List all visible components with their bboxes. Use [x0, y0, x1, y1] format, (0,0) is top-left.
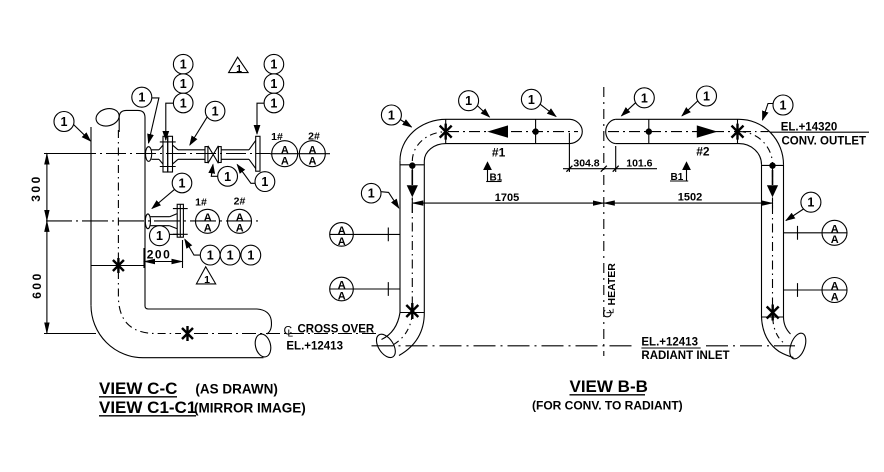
right riser wall outer [783, 165, 785, 317]
pipe #1 bottom wall [446, 143, 570, 145]
svg-text:A: A [281, 155, 289, 167]
svg-text:B1: B1 [671, 172, 684, 183]
weld dot left riser [409, 162, 415, 168]
field weld X on crossover [182, 326, 193, 341]
balloon lower nozzle top [172, 173, 192, 193]
balloon right bend [773, 95, 793, 115]
svg-text:A: A [831, 291, 839, 303]
svg-text:EL.+12413: EL.+12413 [641, 336, 698, 348]
valve bowtie [208, 146, 219, 164]
svg-text:1: 1 [270, 58, 277, 72]
joint line at dot left riser [400, 164, 424, 166]
weld joint pipe #2 right [737, 119, 739, 143]
bottom-left open end ellipse [373, 331, 400, 361]
svg-text:1: 1 [179, 177, 186, 191]
leader pipe #1 a [477, 106, 489, 117]
bottom-right elbow inner arc [784, 317, 791, 334]
lower nozzle flange [177, 204, 183, 237]
balloon row 1 [200, 245, 220, 265]
bottom-right open end ellipse [787, 331, 809, 361]
svg-text:1: 1 [180, 58, 187, 72]
label EL.+12413 radiant [641, 336, 700, 348]
section circle 1# upper [272, 141, 298, 168]
elevation line EL.+14320 [743, 131, 770, 133]
spool 2 walls [221, 150, 249, 160]
section stub B-B left lower [330, 282, 400, 296]
svg-text:300: 300 [29, 174, 43, 202]
lower flange bolt ticks [173, 209, 188, 235]
svg-text:2#: 2# [308, 131, 320, 143]
svg-text:2#: 2# [234, 196, 246, 208]
elbow inner corner [145, 306, 149, 309]
svg-text:1: 1 [61, 115, 68, 129]
dimension 1705 extension [411, 198, 413, 214]
svg-text:1: 1 [528, 93, 535, 107]
svg-text:(MIRROR IMAGE): (MIRROR IMAGE) [194, 401, 306, 416]
leader pipe #2 b [682, 101, 698, 116]
top-left bend outer arc [400, 119, 446, 160]
crossover pipe top wall [149, 308, 258, 310]
leader from riser-left balloon [74, 125, 91, 142]
leader from lower-left balloon [170, 233, 179, 235]
svg-text:A: A [831, 234, 839, 246]
right riser centerline [772, 168, 774, 308]
svg-text:A: A [309, 155, 317, 167]
section circle B-B right upper [822, 220, 847, 246]
left riser centerline [411, 167, 413, 308]
svg-text:1#: 1# [271, 131, 283, 143]
svg-text:EL.+12413: EL.+12413 [286, 341, 343, 353]
balloon valve 1 [218, 166, 238, 186]
balloon pipe #2 b [697, 86, 717, 106]
balloon row 2 [220, 245, 240, 265]
leader from right stack [257, 103, 264, 134]
top-right bend inner arc [739, 144, 762, 165]
upper nozzle flange pair [163, 136, 168, 172]
svg-text:1: 1 [641, 91, 648, 105]
svg-text:A: A [204, 223, 212, 235]
leader from balloon row [185, 239, 201, 255]
balloon pipe #1 b [521, 89, 541, 109]
balloon pipe #2 a [634, 88, 654, 108]
dimension line 1705 [412, 202, 604, 204]
svg-text:1: 1 [236, 63, 242, 75]
leader pipe #2 a [622, 103, 636, 116]
flow arrow pipe #1 (left) [487, 125, 508, 137]
svg-text:CROSS OVER: CROSS OVER [298, 324, 375, 336]
svg-text:(FOR CONV. TO RADIANT): (FOR CONV. TO RADIANT) [532, 399, 683, 413]
svg-text:RADIANT INLET: RADIANT INLET [641, 350, 729, 362]
weld dot pipe #2 [646, 128, 652, 134]
dimension 200 extension lines [144, 240, 183, 268]
top-left bend inner arc [424, 144, 446, 161]
weld joint bottom right riser [762, 316, 784, 318]
top-left bend centerline arc [412, 132, 446, 161]
svg-text:VIEW B-B: VIEW B-B [570, 377, 648, 396]
title VIEW C1-C1 [99, 398, 196, 417]
pipe #2 bottom wall [616, 143, 739, 145]
svg-text:A: A [236, 223, 244, 235]
B1 marker right [670, 163, 690, 183]
svg-text:#2: #2 [696, 145, 710, 159]
crossover end open ellipse [253, 332, 273, 358]
svg-text:HEATER: HEATER [606, 263, 618, 306]
upper nozzle hub flare 2 [173, 145, 179, 164]
svg-text:1502: 1502 [678, 192, 702, 204]
dimension 1502 extension [772, 198, 774, 209]
balloon right riser [801, 192, 821, 212]
pipe #1 rounded end cap [570, 119, 582, 143]
joint line at dot pipe #1 [535, 119, 537, 143]
flow arrow left riser (down) [407, 185, 418, 197]
balloon 1 at riser top [132, 87, 152, 107]
riser centerline bend to crossover [118, 271, 181, 334]
pipe #2 centerline [608, 131, 736, 133]
dimension line 200 [144, 261, 183, 263]
title VIEW C-C [99, 379, 177, 398]
svg-text:L: L [606, 308, 617, 314]
leader from lower-nozzle balloon [152, 189, 175, 208]
dimension line 600 [46, 221, 48, 334]
svg-text:1: 1 [227, 249, 234, 263]
end flange [256, 136, 260, 171]
weld dot right riser [769, 162, 775, 168]
section circle 1# lower [196, 209, 220, 234]
bottom-right elbow centerline [773, 318, 786, 345]
leader right bend [763, 104, 774, 121]
upper nozzle stub walls [152, 150, 160, 160]
section circle B-B right lower [822, 278, 847, 304]
riser pipe right wall [144, 132, 146, 306]
svg-text:1: 1 [207, 249, 214, 263]
svg-text:1: 1 [156, 229, 163, 243]
svg-text:1: 1 [247, 249, 254, 263]
section stub B-B right lower [784, 283, 848, 297]
bottom-right elbow outer arc [762, 317, 794, 358]
upper section line through circles [270, 153, 330, 155]
weld joint pipe #1 left [445, 119, 447, 143]
bottom-left elbow outer arc [382, 313, 401, 340]
svg-text:1: 1 [368, 187, 375, 201]
balloon 1 at riser left [54, 112, 74, 132]
pipe #1 centerline [448, 131, 578, 133]
weld dot pipe #1 [532, 128, 538, 134]
section stub B-B right upper [784, 226, 848, 240]
dimension extension crossover [44, 333, 96, 335]
balloon mid 1 [205, 101, 225, 121]
joint line at dot pipe #2 [648, 119, 650, 143]
dimension 300/600 extension top [44, 153, 94, 155]
slash tick right [613, 166, 619, 172]
leader pipe #1 b [540, 104, 556, 116]
B1 marker left [484, 163, 503, 184]
balloon stack left 2 [173, 74, 193, 94]
svg-text:1#: 1# [195, 197, 207, 209]
leader from mid balloon [190, 117, 207, 145]
balloon stack left 1 [173, 54, 193, 74]
upper nozzle weldolet lens [146, 147, 152, 162]
svg-text:CONV. OUTLET: CONV. OUTLET [782, 136, 867, 148]
heater centerline vertical [603, 87, 605, 356]
left riser wall outer [399, 161, 401, 313]
svg-text:1: 1 [204, 274, 210, 286]
flow arrow pipe #2 (right) [697, 125, 718, 137]
svg-text:1: 1 [180, 97, 187, 111]
title VIEW B-B [570, 377, 648, 396]
riser centerline (dashed) [117, 130, 119, 259]
balloon spool 1 [255, 172, 275, 192]
field weld X pipe #2 [732, 124, 744, 140]
leader left riser [381, 192, 399, 208]
pipe #2 top wall [616, 118, 739, 120]
centerline symbol crossover [284, 324, 294, 340]
dimension line 300 [46, 154, 48, 221]
slash tick left [566, 166, 572, 172]
crossover centerline to label [194, 333, 376, 335]
field weld X bottom right [767, 305, 779, 321]
svg-text:200: 200 [147, 247, 172, 261]
svg-text:EL.+14320: EL.+14320 [781, 122, 838, 134]
svg-text:1: 1 [270, 97, 277, 111]
pipe #1 top wall [446, 118, 570, 120]
svg-text:1: 1 [270, 77, 277, 91]
lower nozzle centerline [46, 220, 261, 222]
svg-text:1: 1 [703, 90, 710, 104]
riser pipe left wall [90, 127, 92, 305]
svg-text:1: 1 [212, 105, 219, 119]
left riser wall inner [423, 161, 425, 313]
top-right bend centerline arc [739, 132, 773, 165]
balloon stack right 1 [264, 54, 284, 74]
bottom-left elbow inner arc [399, 313, 424, 356]
lower nozzle hub flare [170, 214, 178, 229]
leader from left-bend balloon [400, 120, 411, 128]
leader from valve balloon [211, 165, 217, 177]
flow arrow right riser (down) [767, 185, 778, 197]
leader right riser [786, 209, 804, 221]
leader from left stack [166, 103, 174, 140]
leader from spool balloon [237, 165, 255, 184]
field weld X on riser [113, 258, 124, 273]
top-right bend outer arc [739, 119, 784, 164]
elevation line radiant inlet [372, 345, 634, 347]
svg-text:#1: #1 [492, 146, 506, 160]
svg-text:VIEW C1-C1: VIEW C1-C1 [99, 398, 196, 417]
svg-text:1705: 1705 [495, 192, 519, 204]
section stub B-B left upper [330, 228, 400, 242]
lower nozzle stub walls [150, 217, 169, 226]
leader from riser-top balloon [149, 98, 159, 143]
weld joint bottom left riser [400, 312, 424, 314]
svg-text:(AS DRAWN): (AS DRAWN) [195, 382, 278, 397]
svg-text:1: 1 [138, 91, 145, 105]
field weld X pipe #1 [440, 124, 452, 140]
crossover end rounded cap [257, 309, 271, 334]
valve flange plate left [205, 147, 208, 163]
svg-text:A: A [338, 290, 346, 302]
riser pipe open end ellipse [94, 106, 121, 128]
lower nozzle weldolet lens [145, 214, 150, 229]
svg-text:L: L [288, 329, 294, 340]
valve flange plate right [218, 147, 221, 163]
section circle B-B left upper [330, 223, 354, 248]
svg-text:1: 1 [224, 170, 231, 184]
svg-text:304.8: 304.8 [573, 158, 599, 170]
slash tick mid [601, 166, 607, 172]
end hub flare [249, 141, 256, 169]
crossover pipe bottom wall [144, 357, 264, 359]
section circle 2# lower [228, 209, 252, 234]
balloon stack left 3 [173, 93, 193, 113]
balloon stack right 2 [264, 74, 284, 94]
elbow outer arc [91, 305, 144, 358]
svg-text:B1: B1 [490, 172, 503, 183]
inspection triangle lower [196, 267, 215, 286]
svg-text:1: 1 [807, 196, 814, 210]
joint line at dot right riser [762, 164, 784, 166]
dimension 304.8/101.6 extensions [569, 133, 615, 172]
upper flange bolt ticks [160, 142, 176, 167]
balloon lower nozzle left [150, 226, 170, 246]
upper nozzle centerline [46, 153, 270, 155]
svg-text:101.6: 101.6 [626, 157, 652, 169]
weld joint line across riser [91, 265, 145, 267]
field weld X bottom left [406, 303, 418, 319]
inspection triangle top [229, 57, 249, 75]
svg-text:600: 600 [30, 271, 44, 299]
section circle B-B left lower [330, 277, 354, 302]
pipe #2 rounded end cap left [606, 119, 616, 143]
svg-text:1: 1 [261, 175, 268, 189]
balloon pipe #1 a [459, 91, 479, 111]
svg-text:1: 1 [180, 77, 187, 91]
spool 1 walls [178, 150, 205, 160]
section circle 2# upper [299, 141, 325, 168]
balloon stack right 3 [264, 93, 284, 113]
upper nozzle hub flare [159, 145, 163, 164]
riser pipe rounded top [119, 110, 145, 132]
centerline symbol heater [601, 308, 617, 318]
svg-text:1: 1 [388, 109, 395, 123]
svg-text:1: 1 [780, 99, 787, 113]
dimension line 1502 [604, 202, 773, 204]
dimension line 304.8/101.6 [563, 168, 657, 170]
svg-text:1: 1 [465, 94, 472, 108]
balloon left riser [361, 183, 381, 203]
svg-text:A: A [338, 236, 346, 248]
right riser wall inner [761, 165, 763, 317]
bottom-left elbow centerline [391, 314, 412, 346]
balloon row 3 [241, 245, 261, 265]
balloon B-B left bend [381, 105, 401, 125]
svg-text:VIEW C-C: VIEW C-C [99, 379, 177, 398]
